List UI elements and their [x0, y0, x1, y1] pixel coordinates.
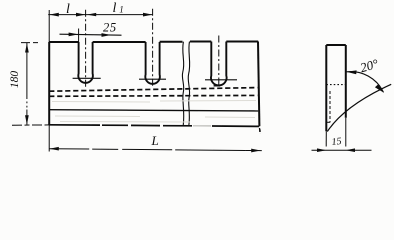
svg-text:20°: 20° — [358, 56, 380, 75]
svg-text:1: 1 — [119, 5, 124, 15]
svg-text:l: l — [113, 1, 117, 16]
svg-text:15: 15 — [331, 136, 342, 148]
svg-text:L: L — [151, 133, 159, 148]
svg-text:180: 180 — [9, 71, 21, 89]
svg-text:25: 25 — [103, 21, 117, 35]
svg-text:l: l — [66, 2, 70, 17]
